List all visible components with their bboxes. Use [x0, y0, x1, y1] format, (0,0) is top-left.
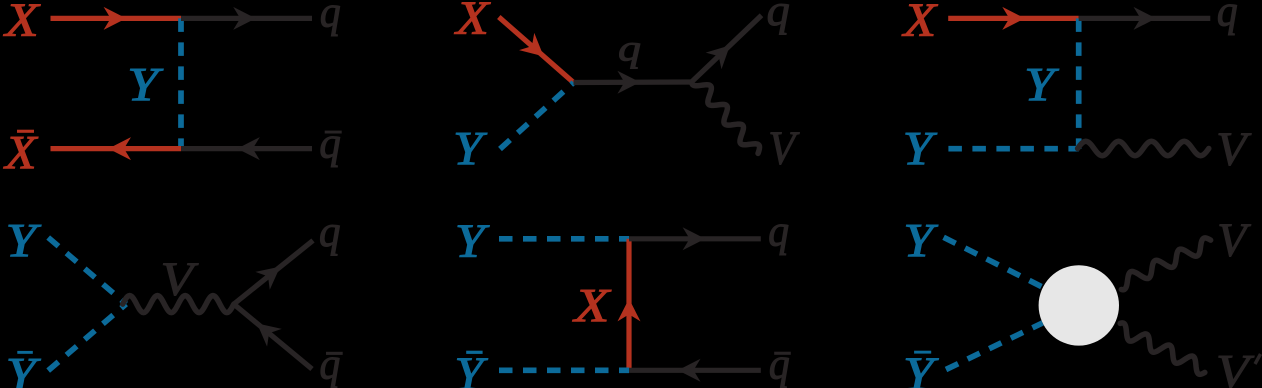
arrow on q line	[233, 7, 256, 30]
qbar overbar	[325, 131, 342, 134]
arrow on qbar	[250, 314, 282, 346]
Ybar overbar	[914, 351, 931, 354]
Ybar label	[903, 348, 939, 388]
Y propagator vertical dashed	[1076, 18, 1082, 148]
prime mark	[1255, 354, 1261, 364]
outgoing qbar line	[629, 368, 761, 373]
svg-text:Y: Y	[903, 122, 938, 175]
svg-text:X: X	[454, 0, 491, 44]
svg-text:V: V	[1216, 123, 1252, 176]
qbar label	[769, 341, 790, 388]
svg-text:X: X	[3, 0, 41, 47]
interaction blob	[1039, 265, 1119, 345]
svg-text:Y: Y	[455, 214, 490, 267]
q propagator	[574, 79, 692, 85]
incoming X line	[51, 16, 182, 21]
q label	[320, 0, 341, 37]
arrow on outgoing q	[255, 258, 287, 290]
q label top right	[767, 0, 790, 35]
svg-text:q: q	[768, 208, 789, 256]
Xbar label	[3, 126, 38, 179]
Ybar overbar	[466, 351, 482, 354]
svg-text:q: q	[767, 0, 790, 35]
svg-text:Y: Y	[1024, 59, 1059, 112]
Vprime wavy line down-right	[1120, 323, 1205, 374]
svg-text:Y: Y	[127, 59, 163, 112]
incoming X diagonal line	[499, 17, 574, 83]
qbar label	[319, 340, 340, 388]
V wavy line	[692, 83, 760, 154]
V wavy line up-right	[1121, 238, 1210, 290]
Y propagator (dashed)	[178, 18, 184, 148]
svg-text:q: q	[320, 0, 341, 37]
incoming Xbar line	[51, 146, 182, 151]
Y label bottom	[903, 122, 938, 175]
Ybar overbar	[17, 351, 33, 354]
incoming Ybar dashed	[48, 304, 126, 371]
Y label	[455, 214, 490, 267]
svg-text:q: q	[618, 27, 641, 68]
arrow on q	[683, 227, 706, 250]
V label	[1216, 123, 1252, 176]
svg-text:q: q	[319, 208, 341, 257]
arrow on Xbar line	[108, 137, 131, 160]
V propagator label	[161, 252, 199, 305]
qbar overbar	[326, 352, 343, 355]
arrow on X propagator	[618, 299, 641, 322]
incoming Y dashed horizontal	[948, 146, 1078, 152]
qbar label	[319, 119, 340, 168]
X label	[454, 0, 491, 44]
Y label	[6, 215, 42, 268]
arrow on X line	[1002, 7, 1025, 30]
X label	[902, 0, 939, 46]
outgoing qbar line	[181, 146, 312, 151]
arrow on qbar line	[237, 137, 260, 160]
q label	[1217, 0, 1238, 36]
outgoing q line	[692, 15, 762, 82]
svg-text:X: X	[902, 0, 939, 46]
incoming Ybar dashed	[499, 367, 629, 373]
incoming Y dashed	[944, 237, 1043, 287]
V wavy propagator	[123, 296, 234, 313]
outgoing qbar line	[234, 304, 312, 369]
outgoing q line	[181, 16, 312, 21]
V wavy line	[1078, 141, 1209, 155]
arrow on X diagonal	[519, 33, 551, 65]
Ybar label	[454, 348, 488, 388]
svg-text:V: V	[768, 121, 800, 174]
outgoing q line	[1079, 16, 1211, 21]
svg-text:q: q	[319, 340, 340, 388]
incoming Y dashed diagonal	[500, 83, 574, 150]
Y propagator label	[1024, 59, 1059, 112]
outgoing q line	[234, 241, 313, 305]
svg-text:q: q	[769, 341, 790, 388]
svg-text:V: V	[1217, 214, 1251, 267]
Y label	[127, 59, 163, 112]
svg-text:q: q	[1217, 0, 1238, 36]
q label	[768, 208, 789, 256]
svg-text:V: V	[161, 252, 199, 305]
incoming X line	[948, 16, 1078, 21]
X propagator label	[572, 279, 611, 332]
outgoing q line	[629, 236, 761, 241]
Xbar overbar	[17, 130, 34, 133]
svg-text:Y: Y	[6, 348, 41, 388]
arrow on outgoing q	[706, 37, 738, 69]
V label	[768, 121, 800, 174]
qbar overbar	[774, 352, 791, 355]
Vprime label	[1216, 346, 1255, 388]
svg-text:X: X	[3, 126, 38, 179]
Ybar label	[6, 348, 41, 388]
Y label	[903, 215, 938, 268]
q label	[319, 208, 341, 257]
q propagator label	[618, 27, 641, 68]
arrow on outgoing q	[1134, 7, 1157, 30]
arrow on q propagator	[617, 71, 640, 94]
X propagator vertical	[626, 239, 631, 370]
svg-text:Y: Y	[903, 215, 938, 268]
svg-text:q: q	[319, 119, 340, 168]
V label	[1217, 214, 1251, 267]
X label	[3, 0, 41, 47]
incoming Ybar dashed	[946, 323, 1043, 370]
incoming Y dashed	[48, 238, 126, 305]
incoming Y dashed	[499, 236, 629, 242]
Y label	[453, 121, 487, 174]
arrow on X line	[104, 7, 127, 30]
arrow on qbar	[678, 359, 701, 382]
svg-text:X: X	[572, 279, 611, 332]
